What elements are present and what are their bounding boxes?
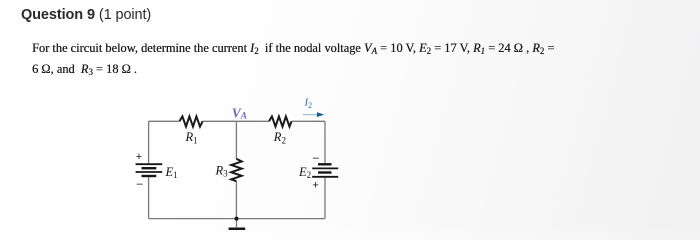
svg-text:R1: R1 — [185, 130, 198, 145]
svg-text:VA: VA — [232, 106, 247, 121]
svg-text:–: – — [313, 152, 320, 164]
svg-text:I2: I2 — [304, 97, 313, 110]
svg-text:R3: R3 — [215, 163, 229, 178]
svg-text:R2: R2 — [273, 130, 286, 145]
svg-text:–: – — [137, 178, 144, 190]
svg-text:+: + — [312, 179, 318, 191]
svg-text:+: + — [136, 151, 142, 163]
svg-text:E1: E1 — [165, 165, 178, 180]
svg-text:E2: E2 — [298, 165, 311, 180]
